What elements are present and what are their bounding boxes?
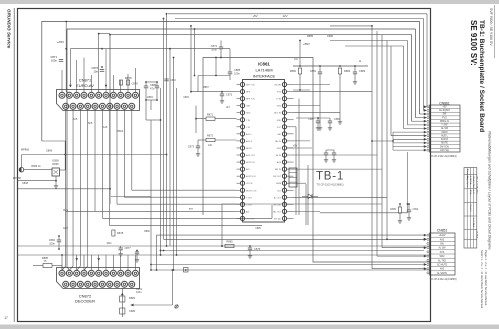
svg-text:CV-A 12: CV-A 12 bbox=[469, 204, 472, 212]
capacitor C892 bbox=[408, 204, 410, 210]
wire bus y250 bbox=[161, 250, 425, 252]
svg-text:R871: R871 bbox=[207, 113, 214, 117]
capacitor C889 bbox=[325, 150, 327, 153]
capacitor C874 bbox=[219, 46, 223, 48]
wire bus y235 bbox=[157, 234, 425, 236]
svg-text:R881: R881 bbox=[129, 296, 136, 300]
svg-text:4-14 Pl.A: 4-14 Pl.A bbox=[469, 176, 472, 185]
svg-text:TB-1: TB-1 bbox=[316, 171, 344, 183]
wire outline B left bbox=[67, 29, 69, 270]
resistor R878 bbox=[112, 230, 115, 236]
svg-text:MUTE: MUTE bbox=[441, 143, 448, 145]
wire drop 4 bbox=[407, 41, 409, 125]
svg-text:GND: GND bbox=[277, 120, 282, 122]
svg-text:R882: R882 bbox=[290, 69, 297, 73]
wire top bus 2 bbox=[175, 18, 424, 20]
svg-text:AL OUT: AL OUT bbox=[274, 196, 282, 199]
svg-text:CN871: CN871 bbox=[79, 78, 92, 83]
svg-text:FVS: FVS bbox=[277, 92, 282, 94]
svg-text:C879: C879 bbox=[254, 247, 261, 251]
capacitor C888 bbox=[329, 118, 331, 121]
svg-text:+A12V: +A12V bbox=[439, 234, 446, 237]
svg-text:MAIN: MAIN bbox=[442, 131, 448, 134]
svg-text:AV5: AV5 bbox=[73, 117, 78, 121]
wire y148 bbox=[287, 147, 312, 149]
svg-text:SAT IN: SAT IN bbox=[275, 168, 282, 171]
svg-text:C878: C878 bbox=[132, 82, 139, 86]
capacitor C871 bbox=[59, 59, 63, 61]
svg-text:R872: R872 bbox=[207, 134, 214, 138]
wire outline B top bbox=[67, 28, 416, 30]
svg-text:GND: GND bbox=[246, 113, 251, 115]
svg-text:SVF 9000 / SE 9100 SV: SVF 9000 / SE 9100 SV bbox=[489, 8, 493, 46]
svg-text:SW2: SW2 bbox=[277, 106, 282, 108]
svg-text:C886: C886 bbox=[327, 34, 334, 38]
svg-text:4-17 TB-A: 4-17 TB-A bbox=[472, 218, 475, 228]
svg-text:LNK SQ: LNK SQ bbox=[440, 150, 449, 152]
svg-text:C888: C888 bbox=[334, 118, 340, 121]
svg-text:AV5: AV5 bbox=[246, 168, 251, 171]
svg-text:AFB: AFB bbox=[189, 208, 194, 211]
capacitor C885 bbox=[228, 71, 232, 73]
svg-text:R889: R889 bbox=[390, 208, 396, 211]
svg-text:100n: 100n bbox=[49, 241, 55, 245]
capacitor C890 bbox=[333, 150, 335, 153]
svg-text:AUD IN: AUD IN bbox=[274, 112, 281, 115]
capacitor C884 bbox=[58, 236, 60, 240]
svg-text:C883: C883 bbox=[359, 69, 366, 73]
wire y118 bbox=[296, 117, 330, 119]
network below CN872 bbox=[120, 289, 136, 318]
svg-text:SE 9100 SV:: SE 9100 SV: bbox=[469, 20, 478, 66]
svg-text:100: 100 bbox=[208, 144, 213, 147]
wire T861 emitter bbox=[55, 176, 57, 181]
capacitor C877 bbox=[120, 246, 122, 248]
capacitor C887 bbox=[317, 118, 319, 121]
svg-text:IC869: IC869 bbox=[52, 160, 59, 163]
resistor R877 bbox=[126, 80, 129, 85]
wire right bus v2 bbox=[376, 31, 378, 256]
reference table (rotated) bbox=[464, 168, 478, 248]
svg-text:TV IN: TV IN bbox=[276, 99, 282, 101]
wire bus CN871 to IC861 bbox=[62, 109, 272, 270]
svg-text:C874: C874 bbox=[211, 44, 218, 48]
svg-text:AL SW: AL SW bbox=[438, 247, 446, 250]
svg-text:+A5V: +A5V bbox=[57, 40, 64, 44]
svg-text:C OUT: C OUT bbox=[246, 204, 253, 206]
wires into CN851 bbox=[150, 234, 427, 270]
svg-text:SW TAL: SW TAL bbox=[274, 217, 282, 220]
svg-text:MONT OUT: MONT OUT bbox=[246, 190, 257, 192]
svg-text:100n: 100n bbox=[136, 291, 142, 294]
resistor R886 bbox=[43, 264, 52, 268]
wire outline C bbox=[110, 35, 412, 205]
svg-text:10k: 10k bbox=[294, 59, 299, 61]
svg-text:DECODER: DECODER bbox=[75, 299, 95, 304]
wire right bus v1 bbox=[371, 26, 373, 269]
svg-text:100n: 100n bbox=[211, 47, 217, 51]
svg-text:+5V: +5V bbox=[252, 14, 257, 18]
wire mid bus v x194 bbox=[194, 29, 196, 76]
svg-text:SW3: SW3 bbox=[277, 148, 282, 150]
svg-text:R876: R876 bbox=[125, 76, 132, 80]
wire y75 subnet bbox=[198, 75, 230, 77]
resistor R889 bbox=[398, 207, 401, 213]
svg-text:C895: C895 bbox=[255, 228, 261, 230]
svg-text:AVL: AVL bbox=[246, 210, 251, 213]
svg-text:+B5V: +B5V bbox=[303, 42, 310, 46]
svg-text:4k7: 4k7 bbox=[226, 107, 230, 109]
svg-text:MP866: MP866 bbox=[21, 148, 30, 152]
svg-text:C IN: C IN bbox=[246, 127, 251, 129]
svg-text:CN851: CN851 bbox=[437, 229, 448, 233]
svg-text:C881: C881 bbox=[310, 69, 317, 73]
svg-text:SAT: SAT bbox=[277, 133, 282, 136]
svg-text:SW LNK: SW LNK bbox=[273, 204, 281, 206]
svg-text:C869: C869 bbox=[46, 149, 53, 153]
svg-text:Y SAT: Y SAT bbox=[441, 124, 448, 127]
svg-text:MFS YOU: MFS YOU bbox=[246, 99, 256, 101]
svg-text:AV-SQ/NO: AV-SQ/NO bbox=[439, 109, 450, 112]
wire right bus v5 bbox=[390, 46, 392, 136]
svg-text:TAL IN: TAL IN bbox=[275, 140, 282, 143]
component on bus y270 bbox=[184, 268, 189, 273]
page top margin band bbox=[0, 0, 499, 4]
wire bus y255 bbox=[18, 254, 431, 256]
svg-text:LNT OUT: LNT OUT bbox=[246, 218, 255, 220]
svg-text:12V: 12V bbox=[283, 14, 288, 18]
wire right bus v3 bbox=[381, 35, 383, 248]
wire mid bus v x173 bbox=[173, 58, 175, 271]
svg-text:Platinenabbildungen und Schalt: Platinenabbildungen und Schaltpläne / La… bbox=[487, 131, 491, 250]
svg-text:R869: R869 bbox=[53, 163, 60, 166]
page bottom margin band bbox=[0, 325, 499, 329]
svg-text:DATA: DATA bbox=[276, 182, 282, 185]
svg-text:CD-A 12 TB-1: CD-A 12 TB-1 bbox=[472, 176, 475, 189]
connector CN862 bbox=[289, 168, 297, 187]
svg-text:+5V: +5V bbox=[442, 107, 447, 109]
svg-text:AUSTG IN: AUSTG IN bbox=[246, 175, 256, 178]
capacitor C878b bbox=[136, 251, 138, 253]
connector CN861 bbox=[427, 102, 460, 153]
svg-text:10n: 10n bbox=[93, 70, 98, 74]
svg-text:TB-1: Buchsenplatte / Socket B: TB-1: Buchsenplatte / Socket Board bbox=[478, 20, 485, 132]
svg-text:LNCHR: LNCHR bbox=[274, 85, 281, 87]
svg-text:15 TB-A: 15 TB-A bbox=[475, 231, 478, 239]
wire y204 shelf bbox=[222, 203, 382, 205]
svg-text:AUD L: AUD L bbox=[441, 134, 448, 137]
svg-text:SW: SW bbox=[440, 244, 445, 246]
wire bus y270 bbox=[151, 269, 431, 271]
wire mid bus v x151 bbox=[150, 120, 152, 270]
wires from IC861 right pins bbox=[294, 85, 388, 226]
wires into CN872 top pins bbox=[61, 254, 135, 270]
svg-text:R887: R887 bbox=[203, 87, 209, 89]
svg-text:R890: R890 bbox=[144, 231, 150, 233]
svg-text:R868 1k: R868 1k bbox=[31, 165, 41, 168]
resistor R880 bbox=[225, 244, 234, 247]
resistor R876 bbox=[119, 80, 122, 85]
svg-text:FBAS: FBAS bbox=[117, 129, 124, 133]
top-right rule bbox=[494, 5, 496, 58]
svg-text:+5V: +5V bbox=[293, 145, 298, 148]
svg-text:C893: C893 bbox=[183, 97, 189, 99]
wire bus y196 bbox=[111, 196, 151, 198]
wire mid bus v x156 bbox=[156, 235, 158, 270]
svg-text:C872: C872 bbox=[226, 93, 233, 97]
wire bus y246 bbox=[18, 245, 431, 247]
svg-text:C868: C868 bbox=[22, 182, 29, 185]
svg-text:A16: A16 bbox=[103, 125, 108, 129]
svg-text:TB-1: TB-1 bbox=[475, 190, 477, 195]
svg-text:AL TXD: AL TXD bbox=[438, 259, 446, 262]
svg-text:Y OUT: Y OUT bbox=[246, 197, 253, 199]
svg-text:SW OUT: SW OUT bbox=[273, 176, 282, 178]
schematic outer frame bbox=[18, 9, 431, 322]
transistor T861 bbox=[52, 168, 60, 176]
svg-text:C883: C883 bbox=[170, 79, 176, 82]
svg-text:C885: C885 bbox=[234, 68, 241, 72]
svg-text:100n: 100n bbox=[106, 243, 112, 245]
svg-text:LA7146M: LA7146M bbox=[255, 68, 272, 73]
diode D861 bbox=[308, 194, 312, 199]
wire mid bus v x160 bbox=[160, 88, 162, 255]
wire y188 bbox=[18, 188, 111, 190]
wire y154 bbox=[22, 154, 167, 156]
wire mid bus v x170 bbox=[169, 49, 171, 246]
svg-text:MP868: MP868 bbox=[13, 177, 22, 180]
svg-text:MFS: MFS bbox=[246, 92, 251, 94]
wire y212 to R889 bbox=[320, 212, 408, 214]
svg-text:C892: C892 bbox=[413, 208, 419, 211]
wires from CN871 top pins bbox=[62, 21, 230, 93]
svg-text:SW SOU: SW SOU bbox=[440, 146, 450, 148]
svg-text:SW1: SW1 bbox=[246, 106, 251, 108]
svg-text:INTERFACE: INTERFACE bbox=[253, 74, 276, 79]
svg-text:C882: C882 bbox=[129, 309, 136, 313]
svg-text:100n: 100n bbox=[234, 72, 240, 76]
wire bus y239 bbox=[164, 238, 425, 240]
svg-text:CP-1 4-17 TB-1: CP-1 4-17 TB-1 bbox=[475, 176, 477, 191]
svg-text:FVS: FVS bbox=[440, 252, 445, 254]
svg-text:C887: C887 bbox=[308, 118, 314, 121]
svg-text:TO CP-2102-41(CN865): TO CP-2102-41(CN865) bbox=[430, 278, 457, 281]
svg-text:SW2: SW2 bbox=[440, 256, 446, 258]
svg-text:AUD OUT: AUD OUT bbox=[246, 154, 256, 157]
svg-text:47u: 47u bbox=[150, 86, 155, 90]
capacitor C883b on bus bbox=[164, 78, 168, 80]
wire branch from outline A bbox=[42, 140, 65, 142]
svg-text:100n: 100n bbox=[51, 59, 58, 63]
svg-text:Pages 1 - 2 a. 4 - 14 see Main: Pages 1 - 2 a. 4 - 14 see Main Service M… bbox=[484, 250, 488, 306]
RC network right of IC861 bbox=[290, 34, 368, 130]
svg-text:KT-A: KT-A bbox=[469, 190, 472, 195]
wire top bus 1 bbox=[168, 13, 427, 15]
svg-text:AL SATIN: AL SATIN bbox=[437, 272, 447, 275]
svg-text:C881: C881 bbox=[147, 95, 154, 99]
svg-text:AUD R: AUD R bbox=[246, 140, 253, 143]
svg-text:R885: R885 bbox=[307, 34, 314, 38]
svg-text:IC861: IC861 bbox=[258, 62, 270, 67]
svg-text:TO CP-2102-41(CN861): TO CP-2102-41(CN861) bbox=[316, 184, 343, 187]
svg-text:4-17: 4-17 bbox=[472, 190, 474, 195]
wire right bus v4 bbox=[386, 41, 388, 240]
wire pair joining caps bbox=[146, 81, 157, 83]
svg-text:ACT: ACT bbox=[63, 226, 69, 230]
svg-text:AV5: AV5 bbox=[440, 238, 445, 241]
svg-text:TAL OUT: TAL OUT bbox=[273, 210, 282, 213]
svg-text:MUTE: MUTE bbox=[246, 148, 252, 150]
svg-text:SW: SW bbox=[443, 114, 448, 116]
left margin rule bbox=[13, 8, 15, 322]
capacitor C880 bbox=[145, 82, 147, 86]
svg-text:VCC: VCC bbox=[277, 127, 282, 129]
svg-text:AF5: AF5 bbox=[88, 121, 93, 125]
svg-text:ALM: ALM bbox=[277, 161, 281, 164]
capacitor C872 bbox=[220, 93, 224, 95]
svg-text:Seiten 1 - 2 u. 4 - 14 siehe B: Seiten 1 - 2 u. 4 - 14 siehe Basis Servi… bbox=[480, 250, 484, 309]
svg-text:C877: C877 bbox=[125, 246, 132, 250]
svg-text:SC MUTE: SC MUTE bbox=[437, 265, 448, 267]
svg-text:1k: 1k bbox=[359, 61, 362, 63]
resistor R871 bbox=[206, 117, 215, 120]
svg-text:FBAS 2x: FBAS 2x bbox=[440, 120, 450, 123]
svg-text:AVS: AVS bbox=[63, 208, 68, 212]
svg-text:AL SW: AL SW bbox=[441, 127, 449, 130]
wire mid bus v x163 bbox=[163, 19, 165, 240]
svg-text:AL IN: AL IN bbox=[276, 154, 281, 157]
svg-text:Abgleichplan: Abgleichplan bbox=[466, 176, 469, 187]
wire outline A bbox=[42, 22, 420, 142]
svg-text:FVS: FVS bbox=[442, 117, 447, 119]
svg-text:AUD R: AUD R bbox=[441, 138, 448, 141]
svg-text:GRUNDIG Service: GRUNDIG Service bbox=[7, 9, 12, 49]
svg-text:AV5: AV5 bbox=[440, 268, 445, 271]
chassis symbol bbox=[175, 305, 178, 308]
shield box around IC861 bbox=[203, 58, 431, 263]
svg-text:MONT IN: MONT IN bbox=[246, 162, 255, 164]
svg-text:C884: C884 bbox=[49, 238, 56, 242]
capacitor C873 bbox=[196, 145, 200, 147]
svg-text:REF YOU: REF YOU bbox=[246, 85, 255, 87]
connector CN872 DECODER bbox=[57, 268, 140, 304]
wire jack to T861 bbox=[24, 169, 52, 171]
svg-text:CLK: CLK bbox=[277, 190, 282, 192]
capacitor C876 bbox=[100, 69, 104, 71]
svg-text:R884: R884 bbox=[344, 69, 351, 73]
wire mid bus v x191 bbox=[190, 26, 192, 92]
svg-text:R880: R880 bbox=[226, 240, 233, 244]
svg-text:AUD L: AUD L bbox=[246, 133, 253, 136]
connector CN851 bbox=[427, 229, 455, 276]
wires into CN861 bbox=[371, 105, 427, 151]
wire mid bus v x176 bbox=[176, 88, 178, 255]
wire chassis return bbox=[171, 270, 173, 305]
svg-text:LNT IN: LNT IN bbox=[246, 183, 253, 185]
wire mid bus v x166 bbox=[166, 14, 168, 246]
resistor R872 bbox=[206, 138, 215, 141]
jack socket MP861 bbox=[19, 167, 24, 172]
capacitor C879 bbox=[248, 247, 252, 249]
connector CN871 EURO-AV bbox=[57, 78, 140, 111]
capacitor C881b bbox=[156, 82, 158, 86]
svg-text:Y IN: Y IN bbox=[246, 120, 250, 122]
wire drop 5 bbox=[403, 46, 405, 129]
svg-text:R878: R878 bbox=[117, 231, 124, 235]
svg-text:C873: C873 bbox=[188, 145, 195, 149]
op-amp interface IC861 LA7146M bbox=[237, 62, 294, 223]
svg-text:TO CP-2102-41(CN864): TO CP-2102-41(CN864) bbox=[430, 155, 457, 158]
wire y91 to IC bbox=[191, 91, 237, 93]
svg-text:17: 17 bbox=[4, 316, 8, 320]
